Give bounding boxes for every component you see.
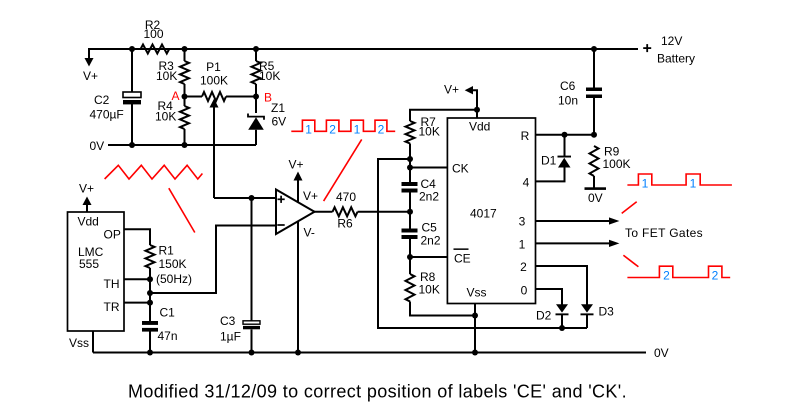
ground bar under R9 [585, 187, 607, 190]
node V-/0V [295, 350, 301, 356]
svg-text:3: 3 [519, 215, 526, 229]
wire D1 top lead [564, 135, 566, 156]
svg-text:V-: V- [304, 226, 315, 240]
node C1/0V [147, 350, 153, 356]
svg-text:4017: 4017 [470, 207, 497, 221]
svg-text:Vss: Vss [69, 336, 89, 350]
resistor R2 [141, 45, 170, 54]
V+ arrowhead top-left (down) [85, 58, 94, 67]
red pointer op-amp out to clock waveform [324, 139, 362, 201]
wire R9 bottom lead [593, 176, 595, 188]
node C6/R9/R pin [591, 132, 597, 138]
resistor R1 [146, 245, 155, 268]
svg-text:CK: CK [452, 162, 469, 176]
wire 4017 Vss leg [474, 304, 476, 353]
svg-text:0V: 0V [90, 139, 105, 153]
svg-text:12V: 12V [661, 34, 682, 48]
wire R5 column leads [255, 49, 257, 61]
resistor R8 [406, 274, 415, 302]
wire C2 bottom lead [131, 104, 133, 145]
node plus-input/C3 [249, 195, 255, 201]
svg-text:0V: 0V [654, 346, 669, 360]
svg-text:1: 1 [305, 123, 312, 137]
svg-text:4: 4 [523, 176, 530, 190]
svg-text:C1: C1 [160, 306, 176, 320]
resistor R5 [252, 61, 261, 84]
wire C1 bottom lead [149, 332, 151, 353]
wire CK net branch down to diode commons [378, 159, 587, 328]
resistor R3 [180, 61, 189, 84]
node R3/top rail [182, 46, 188, 52]
V+ arrowhead above op-amp (up) [294, 172, 303, 181]
wire top V+ rail [89, 48, 638, 50]
wire wiper to op-amp + input [214, 197, 276, 199]
svg-text:1: 1 [642, 177, 649, 191]
red pointer to phase-2 waveform [623, 255, 638, 267]
wire D3 bottom lead [586, 315, 588, 329]
wire CE pin [410, 256, 447, 258]
svg-text:0: 0 [521, 284, 528, 298]
wire 555 TH pin [124, 278, 150, 280]
svg-text:V+: V+ [79, 182, 94, 196]
node B [253, 94, 259, 100]
wire R6 to C4/C5 node [358, 211, 411, 213]
svg-text:C5: C5 [422, 221, 438, 235]
svg-text:1: 1 [354, 123, 361, 137]
diode D1 [558, 158, 571, 168]
svg-text:Vss: Vss [467, 286, 487, 300]
svg-text:10n: 10n [558, 94, 578, 108]
svg-text:10K: 10K [156, 69, 177, 83]
svg-text:2: 2 [378, 123, 385, 137]
svg-text:555: 555 [79, 257, 99, 271]
svg-text:2: 2 [520, 260, 527, 274]
svg-text:V+: V+ [444, 83, 459, 97]
svg-text:1: 1 [519, 238, 526, 252]
wire C2 top lead [131, 49, 133, 92]
wire pin2 to D3 [536, 266, 588, 305]
svg-text:1µF: 1µF [220, 330, 241, 344]
svg-text:Z1: Z1 [271, 101, 285, 115]
diode D3 [581, 304, 593, 312]
node Vss/0V [472, 350, 478, 356]
node CE/C5 [407, 254, 413, 260]
op-amp minus input symbol [277, 224, 284, 226]
svg-text:10K: 10K [419, 125, 440, 139]
wire left V+ stub [88, 48, 90, 59]
node op-amp out/C4 [407, 209, 413, 215]
svg-text:Vdd: Vdd [469, 120, 490, 134]
wire op-amp V+ stem [297, 180, 299, 202]
svg-text:D3: D3 [599, 305, 615, 319]
wire TH node to op-amp minus input [150, 226, 276, 294]
svg-text:100K: 100K [200, 74, 228, 88]
capacitor C2 plates (polarized) [123, 92, 141, 98]
wire pin1 output [536, 242, 612, 244]
svg-text:A: A [172, 89, 180, 103]
node C2/top rail [129, 46, 135, 52]
svg-text:470: 470 [336, 190, 356, 204]
wire R1 bottom to TR/C1 column [149, 268, 151, 321]
svg-text:C3: C3 [220, 314, 236, 328]
node Vdd/V+ [474, 107, 480, 113]
svg-text:(50Hz): (50Hz) [156, 272, 192, 286]
svg-text:1: 1 [690, 177, 697, 191]
svg-text:2: 2 [712, 269, 719, 283]
resistor R9 [590, 146, 599, 176]
wire pin0 to D2 [536, 289, 563, 305]
wire pin3 output [536, 220, 612, 222]
svg-text:47n: 47n [158, 329, 178, 343]
wire op-amp output to R6 [315, 211, 333, 213]
node R5/top rail [253, 46, 259, 52]
wire 555 Vss leg [92, 331, 94, 353]
wire C4 bottom to C5 top [409, 193, 411, 229]
svg-text:D2: D2 [536, 309, 552, 323]
wire Vdd node to R7 top [410, 110, 477, 121]
wire bottom 0V rail [93, 352, 646, 354]
pin3 output arrowhead [609, 217, 619, 224]
node C2/0V [129, 142, 135, 148]
red pointer to phase-1 waveform [622, 202, 637, 214]
wire 4017 R pin to C6/R9 node [536, 134, 595, 136]
capacitor C5 plates [402, 229, 418, 233]
wire left 0V rail [108, 144, 256, 146]
resistor R7 [406, 121, 415, 144]
resistor R6 [333, 207, 358, 216]
wire Z1 leads [255, 97, 257, 114]
wire V+ arrow feed to 4017 Vdd [471, 90, 477, 118]
svg-text:C2: C2 [94, 93, 110, 107]
svg-text:10K: 10K [155, 110, 176, 124]
svg-text:To FET Gates: To FET Gates [625, 226, 703, 240]
wire CK pin [410, 167, 447, 169]
node CK pin [407, 165, 413, 171]
svg-text:0V: 0V [588, 191, 603, 205]
capacitor C6 plates [586, 88, 602, 92]
svg-text:V+: V+ [83, 69, 98, 83]
V+ arrowhead above 4017 (left) [465, 86, 473, 94]
svg-text:R6: R6 [337, 217, 353, 231]
pin1 output arrowhead [609, 240, 619, 247]
svg-text:V+: V+ [289, 158, 304, 172]
battery plus sign [643, 44, 651, 52]
IC U1 LMC555 box [68, 212, 125, 331]
red pointer sawtooth to op-amp [169, 188, 195, 232]
wire 555 OP pin to R1 [124, 229, 150, 245]
wire op-amp V- stem to 0V [297, 221, 299, 352]
svg-text:2n2: 2n2 [421, 234, 441, 248]
node D1/R line [562, 132, 568, 138]
svg-text:10K: 10K [419, 283, 440, 297]
svg-text:470µF: 470µF [90, 108, 124, 122]
IC U2 4017 box [447, 118, 535, 304]
node A [182, 94, 188, 100]
wire C5 bottom to R8 top [409, 239, 411, 274]
red sawtooth waveform [105, 165, 203, 179]
wire C3 column top [251, 198, 253, 321]
zener diode Z1 [248, 117, 264, 130]
svg-text:Modified 31/12/09 to correct p: Modified 31/12/09 to correct position of… [128, 382, 627, 402]
svg-text:D1: D1 [541, 154, 557, 168]
svg-text:150K: 150K [159, 257, 187, 271]
svg-text:Vdd: Vdd [78, 215, 99, 229]
svg-text:C6: C6 [560, 79, 576, 93]
capacitor C1 plates [142, 321, 158, 325]
svg-text:2n2: 2n2 [419, 190, 439, 204]
node C3/0V [249, 350, 255, 356]
V+ arrowhead above 555 (up) [83, 197, 92, 206]
node TH-wire [147, 290, 153, 296]
svg-text:10K: 10K [259, 69, 280, 83]
node CK branch [407, 156, 413, 162]
op-amp U3 triangle [276, 190, 315, 235]
red phase-2 waveform [627, 266, 730, 277]
P1 wiper arrowhead (up) [210, 99, 219, 108]
node D2/common [559, 325, 565, 331]
wire R8 bottom to Vss leg [410, 302, 475, 316]
wire C6 leads [593, 49, 595, 88]
red phase-1 waveform [627, 174, 732, 185]
svg-text:TH: TH [104, 277, 120, 291]
svg-text:6V: 6V [272, 115, 287, 129]
node R4/0V [182, 142, 188, 148]
svg-text:R1: R1 [159, 244, 175, 258]
wire R3 column leads [184, 49, 186, 61]
svg-text:2: 2 [663, 269, 670, 283]
svg-text:100: 100 [143, 27, 163, 41]
node C6/top rail [591, 46, 597, 52]
svg-text:100K: 100K [603, 157, 631, 171]
wire 555 TR pin [124, 302, 150, 304]
node TH [147, 276, 153, 282]
node R8/Vss leg [472, 313, 478, 319]
resistor R4 [180, 106, 189, 129]
capacitor C4 plates [402, 182, 418, 186]
svg-text:TR: TR [104, 300, 120, 314]
node TR [147, 300, 153, 306]
svg-text:V+: V+ [303, 189, 318, 203]
wire R7 bottom to CK column [409, 144, 411, 183]
wire D1 bottom lead / pin4 [536, 168, 565, 182]
diode D2 [556, 304, 568, 312]
wire P1 wiper stem [213, 107, 215, 198]
potentiometer P1 track [202, 92, 226, 101]
wire A-B line [185, 96, 203, 98]
wire C3 column bottom [251, 330, 253, 353]
wire D2 bottom lead [561, 315, 563, 329]
svg-text:Battery: Battery [657, 52, 695, 66]
svg-text:R: R [521, 129, 530, 143]
op-amp plus input symbol [278, 196, 285, 203]
red clock waveform 1-2-1-2 [291, 120, 395, 131]
svg-text:OP: OP [104, 228, 121, 242]
svg-text:P1: P1 [206, 60, 221, 74]
capacitor C3 plates (polarized) [243, 321, 260, 324]
svg-text:CE: CE [454, 252, 471, 266]
svg-text:2: 2 [329, 123, 336, 137]
